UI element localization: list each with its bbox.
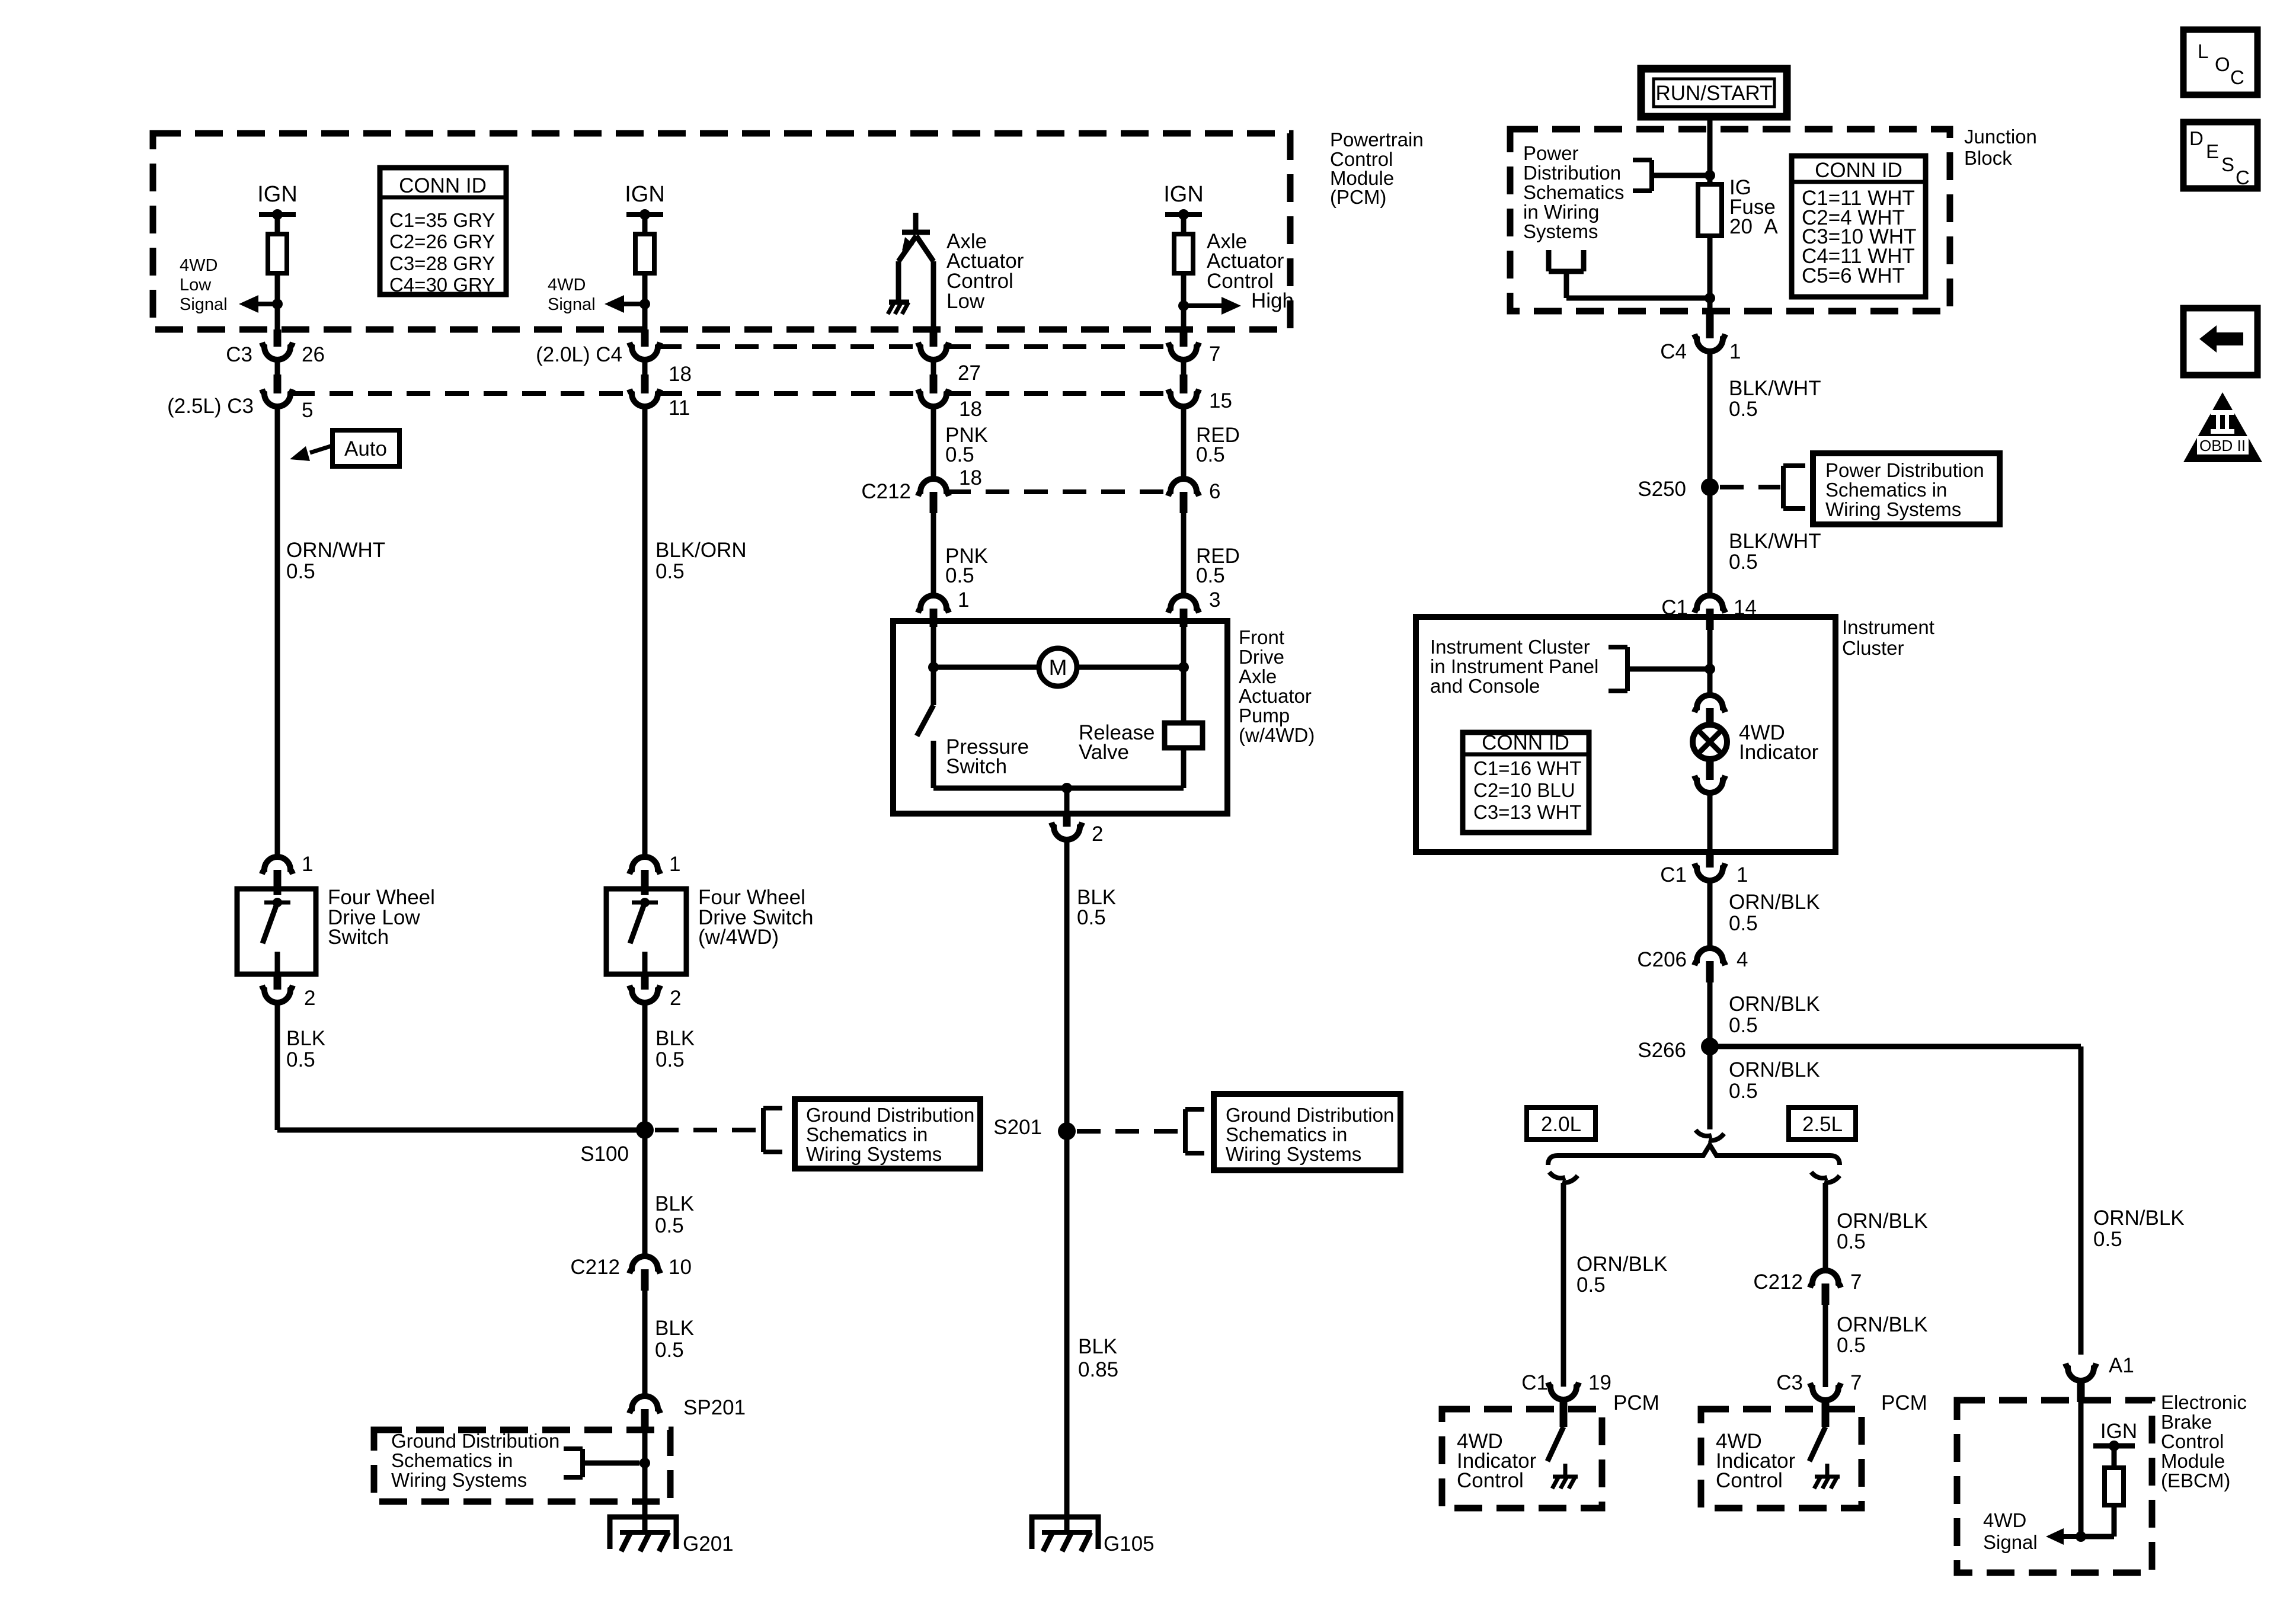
svg-text:Actuator: Actuator	[1239, 685, 1312, 707]
svg-text:C3: C3	[226, 343, 252, 366]
svg-text:C2=26 GRY: C2=26 GRY	[389, 231, 495, 252]
svg-text:Junction: Junction	[1964, 126, 2037, 148]
svg-text:IGN: IGN	[625, 182, 665, 207]
svg-text:BLK/ORN: BLK/ORN	[655, 539, 747, 562]
svg-text:(w/4WD): (w/4WD)	[1239, 724, 1315, 746]
svg-text:Brake: Brake	[2161, 1411, 2212, 1433]
svg-text:0.5: 0.5	[1729, 1014, 1758, 1037]
svg-text:Ground Distribution: Ground Distribution	[1226, 1104, 1394, 1126]
svg-text:10: 10	[669, 1256, 692, 1279]
svg-text:1: 1	[1737, 863, 1748, 886]
svg-text:C: C	[2230, 66, 2244, 88]
svg-text:7: 7	[1850, 1371, 1862, 1394]
svg-text:Wiring Systems: Wiring Systems	[806, 1143, 942, 1165]
svg-text:A1: A1	[2109, 1354, 2134, 1377]
svg-text:BLK: BLK	[655, 1192, 694, 1215]
svg-text:S201: S201	[993, 1116, 1042, 1139]
svg-text:0.5: 0.5	[655, 1048, 685, 1071]
svg-text:Signal: Signal	[180, 295, 228, 314]
svg-text:Block: Block	[1964, 147, 2012, 169]
svg-text:Wiring Systems: Wiring Systems	[1825, 498, 1961, 520]
svg-text:Control: Control	[1457, 1469, 1524, 1492]
svg-text:19: 19	[1588, 1371, 1611, 1394]
svg-text:Schematics in: Schematics in	[1226, 1124, 1347, 1145]
svg-text:Powertrain: Powertrain	[1330, 129, 1424, 151]
svg-text:2.0L: 2.0L	[1541, 1113, 1581, 1136]
svg-text:0.5: 0.5	[945, 443, 974, 466]
svg-text:BLK/WHT: BLK/WHT	[1729, 530, 1821, 553]
svg-text:Schematics in: Schematics in	[806, 1124, 928, 1145]
svg-text:BLK: BLK	[1078, 1335, 1117, 1358]
svg-text:ORN/BLK: ORN/BLK	[1729, 993, 1820, 1016]
svg-text:ORN/WHT: ORN/WHT	[286, 539, 385, 562]
svg-text:(w/4WD): (w/4WD)	[698, 926, 779, 949]
svg-text:BLK: BLK	[286, 1027, 325, 1050]
svg-text:0.5: 0.5	[1729, 912, 1758, 935]
svg-text:Signal: Signal	[1983, 1531, 2038, 1553]
svg-text:Schematics: Schematics	[1523, 181, 1625, 203]
svg-text:in Wiring: in Wiring	[1523, 201, 1599, 223]
svg-text:C5=6 WHT: C5=6 WHT	[1802, 264, 1905, 287]
svg-text:C206: C206	[1637, 948, 1687, 971]
svg-text:C3=28 GRY: C3=28 GRY	[389, 252, 495, 274]
svg-text:Power: Power	[1523, 142, 1579, 164]
svg-text:S100: S100	[580, 1142, 629, 1166]
svg-text:ORN/BLK: ORN/BLK	[1729, 891, 1820, 914]
svg-text:0.5: 0.5	[1729, 550, 1758, 574]
svg-text:Control: Control	[2161, 1430, 2224, 1452]
svg-text:Axle: Axle	[1239, 665, 1277, 687]
svg-text:C4=30 GRY: C4=30 GRY	[389, 274, 495, 296]
svg-text:C1=16 WHT: C1=16 WHT	[1473, 757, 1581, 779]
svg-text:0.5: 0.5	[1077, 906, 1106, 929]
svg-text:Schematics in: Schematics in	[1825, 479, 1947, 501]
svg-text:O: O	[2215, 53, 2230, 75]
svg-text:PCM: PCM	[1613, 1391, 1659, 1414]
svg-text:11: 11	[669, 396, 690, 420]
svg-text:Signal: Signal	[548, 295, 596, 314]
svg-text:Electronic: Electronic	[2161, 1391, 2247, 1413]
svg-text:0.85: 0.85	[1078, 1358, 1118, 1381]
svg-text:0.5: 0.5	[1729, 1080, 1758, 1103]
svg-text:0.5: 0.5	[655, 1339, 684, 1362]
svg-text:26: 26	[302, 343, 325, 366]
svg-text:G201: G201	[683, 1532, 734, 1555]
svg-text:(PCM): (PCM)	[1330, 186, 1386, 208]
svg-text:C1: C1	[1521, 1371, 1548, 1394]
svg-text:C1: C1	[1660, 863, 1687, 886]
svg-text:0.5: 0.5	[1196, 564, 1225, 587]
svg-text:S250: S250	[1638, 478, 1686, 501]
svg-text:Instrument Cluster: Instrument Cluster	[1430, 636, 1590, 658]
svg-text:IGN: IGN	[2100, 1420, 2137, 1443]
svg-text:0.5: 0.5	[655, 1214, 684, 1237]
svg-text:CONN ID: CONN ID	[1815, 159, 1902, 182]
svg-text:20 A: 20 A	[1729, 215, 1778, 238]
svg-text:CONN ID: CONN ID	[399, 174, 487, 197]
svg-text:0.5: 0.5	[286, 560, 315, 583]
svg-text:Indicator: Indicator	[1739, 741, 1819, 764]
svg-text:Wiring Systems: Wiring Systems	[1226, 1143, 1361, 1165]
svg-text:4WD: 4WD	[548, 276, 586, 295]
svg-text:15: 15	[1209, 389, 1232, 412]
svg-text:C212: C212	[1753, 1270, 1803, 1294]
svg-text:ORN/BLK: ORN/BLK	[1576, 1253, 1668, 1276]
svg-text:IGN: IGN	[1163, 182, 1204, 207]
svg-text:C1=35 GRY: C1=35 GRY	[389, 209, 495, 231]
svg-text:Module: Module	[2161, 1450, 2225, 1472]
svg-text:C212: C212	[570, 1256, 620, 1279]
svg-text:Systems: Systems	[1523, 220, 1598, 242]
svg-text:Pump: Pump	[1239, 705, 1290, 726]
svg-text:1: 1	[1729, 340, 1741, 363]
svg-text:4WD: 4WD	[180, 256, 218, 275]
svg-text:Drive: Drive	[1239, 646, 1284, 668]
svg-text:ORN/BLK: ORN/BLK	[2093, 1206, 2185, 1230]
svg-text:18: 18	[959, 466, 982, 489]
svg-text:D: D	[2189, 127, 2204, 149]
svg-text:High: High	[1251, 289, 1294, 312]
svg-text:S: S	[2221, 153, 2234, 175]
svg-text:ORN/BLK: ORN/BLK	[1837, 1209, 1928, 1233]
svg-text:0.5: 0.5	[2093, 1228, 2122, 1251]
svg-text:Cluster: Cluster	[1842, 637, 1904, 659]
svg-text:Auto: Auto	[344, 437, 387, 460]
svg-text:2.5L: 2.5L	[1802, 1113, 1843, 1136]
svg-text:Front: Front	[1239, 626, 1284, 648]
svg-text:2: 2	[1092, 822, 1103, 846]
svg-text:SP201: SP201	[683, 1396, 746, 1419]
svg-text:C: C	[2236, 167, 2250, 188]
svg-text:Wiring Systems: Wiring Systems	[391, 1469, 527, 1491]
svg-text:PCM: PCM	[1881, 1391, 1927, 1414]
svg-text:S266: S266	[1638, 1039, 1686, 1062]
svg-text:E: E	[2206, 140, 2219, 162]
svg-text:Schematics in: Schematics in	[391, 1449, 513, 1471]
svg-text:0.5: 0.5	[1729, 398, 1758, 421]
svg-text:1: 1	[669, 853, 680, 876]
svg-text:C212: C212	[861, 480, 911, 503]
svg-text:0.5: 0.5	[1837, 1334, 1866, 1357]
svg-text:7: 7	[1850, 1270, 1862, 1294]
svg-text:0.5: 0.5	[1196, 443, 1225, 466]
svg-text:(2.5L) C3: (2.5L) C3	[167, 395, 254, 418]
svg-text:6: 6	[1209, 480, 1220, 503]
svg-text:Ground Distribution: Ground Distribution	[391, 1430, 559, 1452]
svg-text:18: 18	[669, 363, 692, 386]
svg-text:0.5: 0.5	[1837, 1230, 1866, 1253]
svg-text:3: 3	[1209, 588, 1220, 612]
svg-text:C3: C3	[1776, 1371, 1803, 1394]
svg-text:OBD II: OBD II	[2199, 437, 2246, 454]
svg-text:Switch: Switch	[946, 755, 1007, 778]
svg-text:4WD: 4WD	[1983, 1509, 2026, 1531]
svg-text:0.5: 0.5	[655, 560, 685, 583]
svg-text:18: 18	[959, 398, 982, 421]
svg-text:Power Distribution: Power Distribution	[1825, 459, 1984, 481]
svg-text:5: 5	[302, 399, 313, 422]
svg-text:27: 27	[958, 361, 981, 385]
svg-text:Low: Low	[180, 276, 212, 295]
svg-text:Distribution: Distribution	[1523, 162, 1621, 184]
svg-text:BLK: BLK	[655, 1027, 695, 1050]
svg-text:IGN: IGN	[257, 182, 298, 207]
svg-text:and Console: and Console	[1430, 675, 1540, 697]
svg-text:BLK: BLK	[655, 1317, 694, 1340]
svg-text:M: M	[1049, 655, 1067, 680]
svg-text:RUN/START: RUN/START	[1655, 82, 1772, 105]
svg-text:0.5: 0.5	[286, 1048, 315, 1071]
svg-text:G105: G105	[1104, 1532, 1155, 1555]
svg-text:ORN/BLK: ORN/BLK	[1837, 1313, 1928, 1336]
svg-text:C3=13 WHT: C3=13 WHT	[1473, 801, 1581, 823]
svg-text:(2.0L) C4: (2.0L) C4	[536, 343, 622, 366]
svg-text:7: 7	[1209, 343, 1220, 366]
svg-text:L: L	[2198, 40, 2208, 62]
svg-text:ORN/BLK: ORN/BLK	[1729, 1058, 1820, 1081]
svg-text:0.5: 0.5	[945, 564, 974, 587]
svg-text:Valve: Valve	[1079, 741, 1129, 764]
svg-text:Ground Distribution: Ground Distribution	[806, 1104, 974, 1126]
svg-text:0.5: 0.5	[1576, 1273, 1606, 1297]
svg-text:2: 2	[670, 987, 681, 1010]
svg-text:BLK/WHT: BLK/WHT	[1729, 377, 1821, 400]
svg-text:CONN ID: CONN ID	[1482, 731, 1569, 754]
svg-text:Low: Low	[946, 290, 985, 313]
svg-text:1: 1	[958, 588, 969, 612]
svg-text:2: 2	[304, 987, 315, 1010]
svg-text:Instrument: Instrument	[1842, 616, 1934, 638]
svg-text:Control: Control	[1716, 1469, 1783, 1492]
svg-text:Switch: Switch	[328, 926, 389, 949]
svg-text:in Instrument Panel: in Instrument Panel	[1430, 655, 1598, 677]
svg-text:4: 4	[1737, 948, 1748, 971]
svg-text:1: 1	[302, 853, 313, 876]
svg-text:C4: C4	[1660, 340, 1687, 363]
svg-text:C2=10 BLU: C2=10 BLU	[1473, 779, 1575, 801]
svg-text:(EBCM): (EBCM)	[2161, 1470, 2230, 1491]
